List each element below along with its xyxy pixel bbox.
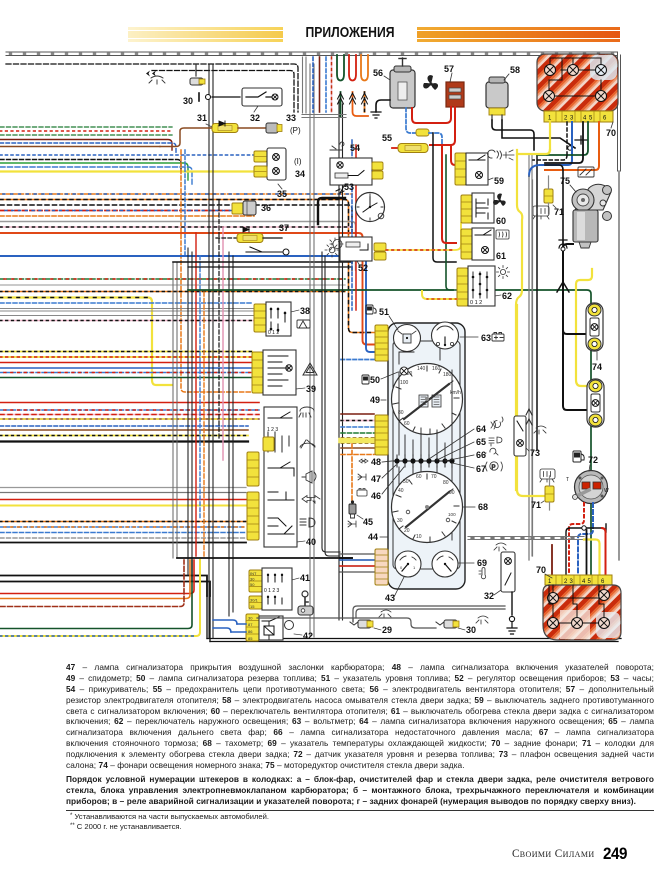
wire bundle G1 green/red pair: [0, 126, 172, 128]
svg-text:50: 50: [250, 582, 255, 587]
icon headlight right of 40: [300, 518, 315, 527]
svg-text:86: 86: [248, 629, 253, 634]
switch near 58: [575, 136, 587, 144]
svg-text:65: 65: [476, 437, 486, 447]
wire black vertical mid-right: [433, 133, 456, 262]
wire G3 gray pair: [0, 309, 253, 312]
lamp 36: [232, 201, 271, 215]
legend text block: [66, 662, 654, 807]
svg-text:53: 53: [344, 182, 354, 192]
connector stacks 40: [247, 452, 259, 486]
wire mid vertical pair A: [173, 262, 177, 558]
license lamp 74b: [587, 379, 604, 427]
svg-text:55: 55: [382, 133, 392, 143]
gauge 69 temp: [432, 551, 487, 577]
svg-text:67: 67: [476, 464, 486, 474]
wire cluster internal verticals: [399, 370, 452, 455]
wire G2 orange dashed: [0, 215, 254, 217]
svg-text:43: 43: [385, 593, 395, 603]
wire 56 blue down: [406, 108, 416, 133]
svg-text:35: 35: [277, 189, 287, 199]
fan icon: [423, 75, 438, 90]
icon washer jet right of 40: [299, 407, 314, 417]
box 38: [266, 302, 310, 336]
svg-text:69: 69: [477, 558, 487, 568]
tail light 70 top connector strip: [544, 111, 616, 138]
svg-text:87: 87: [248, 622, 253, 627]
wire dashed vertical blue: [325, 57, 327, 112]
icon heater grid right of 61: [496, 230, 509, 239]
wire red diagonal long: [442, 146, 456, 243]
wire mid vertical black x339: [339, 100, 343, 620]
wire G5 brown-yellow: [0, 418, 259, 420]
switch lever left of 32: [212, 96, 240, 98]
connector stack 60: [461, 195, 472, 223]
box 39: [263, 350, 316, 395]
lamp icon near 30: [149, 76, 165, 84]
wire G2 orange-blue: [0, 193, 352, 195]
wire G1 yellow long: [0, 170, 254, 172]
wire stubs into cluster connector 3: [340, 554, 374, 572]
wire black trunk to 74 lamps: [563, 244, 586, 334]
svg-text:100: 100: [448, 512, 456, 517]
svg-text:40: 40: [398, 488, 404, 494]
wire G6 gray2: [0, 492, 246, 494]
fuse 31: [160, 113, 238, 147]
wire G3 gray2: [0, 315, 253, 317]
icon connector block lower: [540, 469, 555, 482]
svg-text:85: 85: [248, 636, 253, 641]
wire red to bottom strip: [602, 528, 606, 575]
tachometer 68: [392, 472, 489, 543]
icon key right of 41: [298, 591, 313, 615]
svg-text:44: 44: [368, 532, 378, 542]
tail light 70 bottom connector strip: [536, 565, 612, 585]
wire G7 gray-black: [0, 537, 246, 539]
wire G8 red: [0, 560, 194, 594]
box 41 ignition: [262, 568, 310, 610]
svg-text:30/1: 30/1: [250, 598, 259, 603]
wire bottom frame left verticals: [207, 596, 210, 642]
wire dashed vertical blue-black: [312, 57, 314, 112]
wire yellow to bottom strip pin6: [584, 540, 600, 576]
wire G2 blue-red: [0, 210, 232, 212]
wire mid horizontal black bus y267: [188, 266, 352, 268]
wire red vertical to 59: [451, 145, 456, 165]
svg-text:1 2 3: 1 2 3: [267, 427, 278, 433]
svg-text:0 1 2: 0 1 2: [268, 330, 279, 336]
wire G4 darkgreen: [0, 377, 252, 379]
lamp 30 top: [183, 64, 205, 106]
cluster connector stack mid: [375, 415, 388, 455]
wire G5 brown2: [0, 429, 248, 431]
wire G3 orange-dot: [0, 291, 345, 293]
connector 35: [254, 166, 287, 199]
wire G2 orange-black: [0, 200, 374, 333]
icon rect above 75: [578, 167, 594, 177]
wire orange vertical x181: [181, 150, 252, 392]
svg-text:0 1 2 3: 0 1 2 3: [264, 588, 280, 594]
wire G3 gray: [0, 284, 345, 286]
svg-text:42: 42: [303, 631, 313, 641]
motor 58: [486, 65, 520, 120]
svg-text:32: 32: [484, 591, 494, 601]
svg-text:29: 29: [382, 625, 392, 635]
wire G9 yellow-blue dotted: [0, 560, 200, 636]
wire brown to bottom strip pin1: [551, 545, 553, 575]
box 61: [472, 228, 506, 261]
svg-text:80: 80: [443, 480, 449, 486]
svg-text:30: 30: [183, 96, 193, 106]
wire G4 blue-red dash: [0, 372, 252, 374]
wire red dotted from 72: [569, 503, 584, 574]
svg-text:46: 46: [371, 491, 381, 501]
svg-text:38: 38: [300, 306, 310, 316]
wiper motor 75: [560, 176, 612, 248]
svg-text:50: 50: [403, 479, 409, 485]
cluster connector stack top: [375, 325, 388, 361]
wire to lamp 30 bottom: [257, 618, 436, 628]
plafon 32 lower: [484, 552, 515, 601]
box 52: [330, 237, 372, 273]
footer page marker: [430, 844, 628, 866]
wire G3 yellow turnsdown: [0, 298, 172, 386]
wire G5 pink-red: [0, 414, 259, 416]
plafon 32 top: [242, 88, 282, 123]
tail light 70 bottom box: [543, 585, 621, 640]
svg-text:10: 10: [416, 534, 422, 540]
svg-text:72: 72: [588, 455, 598, 465]
wire orange dashed down to sensor 45: [351, 444, 353, 502]
svg-text:60: 60: [496, 216, 506, 226]
wire G2 gray: [0, 222, 356, 271]
wire G2 black-white: [0, 205, 352, 270]
box 62: [468, 266, 512, 306]
wire G9 red-brown dashed: [0, 560, 184, 607]
wire mid vertical gray double x310: [310, 64, 314, 637]
wire G3 blue dashed: [0, 302, 253, 304]
svg-text:50: 50: [370, 375, 380, 385]
wire 56 ground: [376, 100, 390, 112]
icon lamp above 32: [494, 543, 506, 551]
wire G1 green: [0, 163, 188, 180]
wire G6 gray1: [0, 487, 246, 489]
wire G9 orange: [0, 560, 190, 599]
wire braid vertical pink x223: [222, 227, 224, 460]
lamp 30 bottom: [436, 620, 476, 635]
icon warning triangle right of 39: [303, 363, 317, 375]
svg-text:T: T: [566, 477, 569, 483]
wire top dashed bus: [6, 64, 298, 112]
wire darkgreen vertical mid-right: [446, 155, 457, 290]
header label ПРИЛОЖЕНИЯ: [283, 23, 417, 44]
relay 42: [246, 614, 313, 641]
wire G4 yellow-black: [0, 351, 252, 353]
svg-text:39: 39: [306, 384, 316, 394]
connector 34: [254, 148, 305, 180]
svg-text:100: 100: [400, 380, 409, 386]
svg-text:70: 70: [536, 565, 546, 575]
svg-text:15: 15: [250, 604, 255, 609]
wire mid vertical black x322: [322, 252, 340, 556]
svg-text:31: 31: [197, 113, 207, 123]
lamp 29: [350, 618, 392, 635]
wire G1 brown: [0, 146, 160, 148]
svg-text:P: P: [492, 465, 496, 471]
connector 71 lower: [531, 476, 554, 510]
svg-text:(P): (P): [290, 126, 301, 135]
wires from top strip down: [549, 122, 551, 150]
wire mid vertical colored x352: [351, 140, 353, 310]
icon wiper washer right of 38: [297, 320, 310, 328]
motor 56: [373, 58, 415, 108]
svg-text:62: 62: [502, 291, 512, 301]
icon temp right of 69: [479, 568, 486, 579]
svg-text:68: 68: [478, 502, 488, 512]
svg-text:56: 56: [373, 68, 383, 78]
svg-text:48: 48: [371, 457, 381, 467]
fuse 55: [382, 133, 428, 153]
wire G1 darkred: [0, 140, 172, 151]
icon horn right of 40: [302, 471, 316, 483]
icon arrows left of 48: [359, 459, 368, 463]
footnote rule: [66, 810, 654, 811]
connector stack 59: [455, 153, 466, 185]
switch symbol right bottom: [566, 524, 606, 576]
wire blue dash stub stack1: [341, 359, 374, 361]
wire mid vertical pair B: [188, 248, 192, 581]
connector stack 41: [249, 570, 262, 609]
svg-text:34: 34: [295, 169, 305, 179]
wire arrow vertical red-orange: [353, 92, 369, 116]
svg-text:30: 30: [397, 518, 403, 524]
wire top frame pair: [6, 52, 617, 56]
wire long green bus y290: [188, 289, 453, 291]
icon left of 47: [358, 474, 366, 480]
wire G5 blue-red: [0, 409, 259, 411]
plafon 73: [514, 416, 540, 458]
wire G1 blue dashed 2: [0, 167, 192, 184]
wire blue pair to 42: [213, 620, 237, 632]
wire right frame lower: [618, 171, 620, 560]
icon wiper right of 40: [300, 440, 315, 448]
wire G3 blue thick: [0, 256, 374, 352]
wire G3 pink dotted: [0, 320, 253, 322]
fuel sender 72: [566, 455, 609, 504]
svg-text:64: 64: [476, 424, 486, 434]
svg-text:37: 37: [279, 223, 289, 233]
wire G1 black dashed: [0, 160, 181, 171]
valve symbol top of 74: [559, 240, 567, 258]
svg-text:60: 60: [404, 421, 410, 427]
wire mid vertical pair C: [209, 64, 213, 638]
wire arrow vertical green: [340, 92, 342, 117]
wire G1 blue-red: [0, 143, 176, 154]
wire G7 black: [0, 542, 246, 544]
icon lamp above 29: [379, 610, 391, 618]
svg-text:40: 40: [306, 537, 316, 547]
gauge 63 voltmeter: [432, 322, 492, 349]
icon fuel pump left of 51: [366, 305, 376, 314]
wire blue dashed from 72: [578, 503, 593, 574]
svg-text:49: 49: [370, 395, 380, 405]
footnotes: [70, 812, 570, 831]
wire G7 blue dash: [0, 532, 246, 534]
svg-text:47: 47: [371, 474, 381, 484]
icon turn arrows right of 40: [302, 496, 320, 504]
wire mid horizontal black bus y262: [173, 261, 352, 263]
connector pair at 54: [372, 162, 383, 170]
gauge 50 lamp: [370, 367, 408, 385]
wire dashed vertical darkred: [319, 57, 321, 112]
wire G8 black1: [0, 576, 207, 597]
icon fan right of 60: [493, 193, 506, 206]
svg-text:32: 32: [250, 113, 260, 123]
wire G5 yellow-black2: [0, 435, 248, 437]
wire G3 green-red: [0, 278, 345, 280]
icon battery right of 63: [492, 333, 504, 342]
wire black bus y558 right part: [340, 557, 352, 559]
wire G6 yellow: [0, 505, 246, 507]
icon left of 45: [348, 521, 356, 527]
wire black elbow near clock: [318, 198, 345, 224]
header gradient bar: [128, 26, 620, 42]
wire gray pair w/ arrows left of 75: [529, 176, 533, 560]
cluster inner frame: [393, 341, 460, 569]
box 60: [472, 193, 506, 226]
svg-text:90: 90: [449, 490, 455, 496]
svg-text:58: 58: [510, 65, 520, 75]
wire G5 blue-black to 39: [0, 425, 248, 427]
connector stack 38: [254, 304, 266, 332]
connector stack 39: [252, 352, 263, 393]
yellow wire 62 to left: [422, 291, 457, 299]
connector 71 upper: [544, 176, 564, 217]
gray double wire right: [529, 155, 532, 560]
icons right of 64-67: [484, 417, 503, 471]
wire stubs into cluster connector 2: [341, 413, 374, 415]
svg-text:60: 60: [416, 474, 422, 480]
sensor 45: [349, 500, 373, 527]
svg-text:0 1 2: 0 1 2: [470, 300, 482, 306]
icon fuel left of 50: [362, 375, 369, 384]
svg-text:59: 59: [494, 176, 504, 186]
wire G9 darkgreen: [0, 560, 192, 629]
tail light 70 top: [537, 54, 618, 111]
box 59: [466, 153, 504, 186]
wire yellow down to 74: [517, 305, 545, 496]
svg-text:30: 30: [250, 577, 255, 582]
wire gray bus top-center: [302, 57, 346, 118]
connector stack 61: [461, 229, 472, 259]
svg-text:20: 20: [404, 528, 410, 534]
wire G1 blue dotted: [0, 154, 254, 156]
icon sun right of 62: [497, 266, 510, 279]
icon lamp right of 73: [534, 426, 546, 434]
plug 33: [238, 113, 301, 135]
wire G4 red: [0, 362, 252, 364]
wire blue vertical x185: [184, 150, 186, 256]
svg-text:140: 140: [417, 366, 426, 372]
terminal row 48: [371, 455, 455, 467]
wire gray double bottom to lamps: [353, 606, 505, 618]
svg-text:70: 70: [431, 474, 437, 480]
wire G7 orange-black: [0, 521, 246, 523]
icon fog lamps right of 59: [488, 150, 502, 159]
wire G8 black2: [0, 582, 210, 597]
wire braid vertical orange x204: [203, 292, 205, 556]
svg-text:36: 36: [261, 203, 271, 213]
box 54 cigarette lighter: [330, 142, 372, 193]
svg-text:INT: INT: [250, 571, 257, 576]
wire top colored loop red: [349, 55, 356, 81]
connector stack 62: [457, 268, 468, 306]
svg-text:75: 75: [560, 176, 570, 186]
wire G7 blue-orange: [0, 526, 246, 528]
black wire right x537: [536, 155, 538, 450]
wire right frame vertical: [618, 52, 621, 171]
svg-text:61: 61: [496, 251, 506, 261]
gauge 51 fuel level: [379, 307, 421, 352]
fuse small blue: [416, 129, 429, 136]
wire 56/57 red harness: [412, 107, 451, 123]
svg-text:30: 30: [466, 625, 476, 635]
wire G5 red: [0, 402, 259, 404]
wire top colored loop orange: [361, 55, 368, 81]
icon battery left of 46: [357, 490, 367, 496]
cluster connector stack bottom: [375, 549, 388, 585]
wire braid vertical blue x200: [199, 256, 201, 520]
svg-text:160: 160: [432, 366, 441, 372]
svg-text:57: 57: [444, 64, 454, 74]
svg-text:63: 63: [481, 333, 491, 343]
speedometer 49: [370, 364, 463, 435]
svg-text:41: 41: [300, 573, 310, 583]
wire G6 red: [0, 499, 246, 501]
wire top colored loop green: [337, 55, 344, 81]
box 40 three-lever switch: [264, 407, 316, 547]
icon connector block upper: [533, 206, 549, 219]
svg-text:33: 33: [286, 113, 296, 123]
svg-text:74: 74: [592, 362, 602, 372]
fuse 37: [216, 223, 289, 255]
svg-text:73: 73: [530, 448, 540, 458]
wire mid horizontal y558 black: [177, 557, 352, 559]
wire arrow vertical orange-black: [364, 92, 366, 112]
connector pair at 52: [374, 243, 386, 251]
wire bottom frame double: [207, 639, 621, 642]
wire G4 blue: [0, 367, 252, 369]
clock 53: [344, 182, 385, 222]
svg-text:45: 45: [363, 517, 373, 527]
wire braid vertical red x196: [195, 233, 197, 556]
svg-text:54: 54: [350, 143, 360, 153]
resistor 57: [444, 64, 464, 107]
gauge 43 fuel: [385, 551, 421, 603]
wire arrows on dashed bus: [146, 71, 156, 77]
license lamp 74a: [586, 303, 603, 372]
wire G4 yellow-red: [0, 356, 252, 358]
wire G2 pink-black: [0, 226, 352, 228]
wire from 32 down w/ ground: [511, 592, 513, 615]
yellow wiggly wire down right: [516, 150, 522, 490]
svg-text:W: W: [604, 488, 609, 494]
wire braid vertical black x219: [218, 200, 220, 440]
svg-text:180: 180: [443, 372, 452, 378]
wire yellow dashed to 60: [386, 223, 461, 250]
instrument cluster box: [388, 323, 465, 589]
labels 64-67 with leaders: [429, 424, 486, 474]
